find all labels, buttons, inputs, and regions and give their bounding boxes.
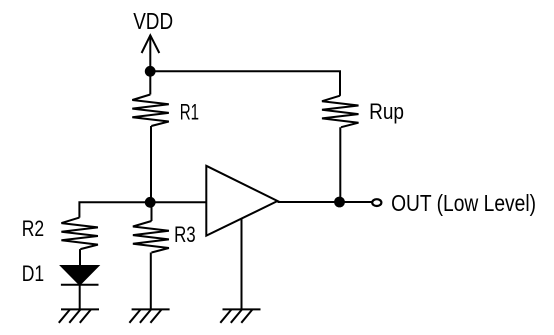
terminal OUT (open circle) <box>372 199 381 206</box>
resistor R3 <box>133 221 169 253</box>
svg-text:OUT (Low Level): OUT (Low Level) <box>391 190 536 216</box>
node B (divider junction) <box>145 197 156 208</box>
svg-text:Rup: Rup <box>369 99 404 124</box>
ground (below comparator) <box>220 309 260 322</box>
wire node B to comparator input <box>150 201 206 203</box>
op-amp U1 (comparator) <box>206 166 277 236</box>
ground (below R3) <box>129 309 169 322</box>
node A (VDD rail junction) <box>145 66 156 77</box>
wire comparator output <box>278 201 373 203</box>
resistor R1 <box>132 95 169 127</box>
wire VDD rail to Rup <box>150 71 340 95</box>
node C (output junction) <box>334 197 345 208</box>
resistor R2 <box>61 218 98 250</box>
wire D1 to ground <box>79 285 81 310</box>
svg-text:R1: R1 <box>180 100 199 125</box>
wire comparator ground pin <box>241 219 243 310</box>
wire node B to R3 <box>151 202 153 221</box>
resistor Rup <box>322 96 359 128</box>
wire node B to R2 <box>79 202 150 217</box>
wire Rup to node C <box>339 127 341 202</box>
svg-text:D1: D1 <box>22 261 44 286</box>
svg-text:VDD: VDD <box>133 8 173 34</box>
wire R3 to ground <box>150 253 152 310</box>
svg-text:R2: R2 <box>22 216 44 241</box>
diode D1 <box>61 266 99 285</box>
wire node A to R1 <box>149 71 151 94</box>
svg-text:R3: R3 <box>174 222 196 247</box>
wire VDD stem <box>149 35 151 68</box>
wire Rup top lead <box>339 93 341 96</box>
wire R2 to D1 <box>79 249 81 266</box>
power VDD arrow <box>142 35 160 53</box>
wire R1 to node B <box>150 126 152 202</box>
ground (below D1) <box>59 309 99 322</box>
